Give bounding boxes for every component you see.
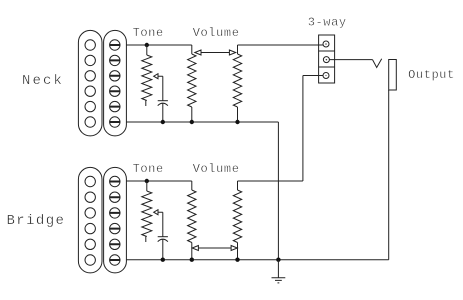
switch terminal 3 bbox=[323, 73, 329, 79]
potentiometer volume neck left element bbox=[191, 45, 193, 54]
node dot vol-NR ground bbox=[235, 120, 239, 124]
node dot vol-BR ground bbox=[235, 258, 239, 262]
wiper arrow tone bridge bbox=[154, 210, 163, 237]
potentiometer volume bridge left element bbox=[191, 181, 193, 190]
ground symbol bbox=[272, 260, 286, 283]
node dot cap-N ground bbox=[161, 120, 165, 124]
node dot vol-NL ground bbox=[190, 120, 194, 124]
svg-text:Tone: Tone bbox=[133, 162, 164, 176]
wire bridge hot: pickup to tone/volume top bbox=[126, 180, 191, 182]
wire bridge cold bus (bottom) to jack sleeve bbox=[126, 90, 388, 260]
potentiometer tone bridge (resistor body) bbox=[146, 181, 148, 191]
wire neck ground drop bbox=[277, 122, 279, 260]
node dot ground junction bbox=[276, 258, 280, 262]
svg-text:Tone: Tone bbox=[133, 26, 164, 40]
svg-text:Output: Output bbox=[408, 68, 455, 82]
svg-text:Neck: Neck bbox=[22, 73, 64, 89]
switch SW1 3-way body bbox=[319, 35, 335, 83]
node junction dot tone-N top bbox=[145, 43, 149, 47]
pickup NECK coil 2 (screw poles) bbox=[104, 30, 127, 135]
jack tip contact (V spring) bbox=[373, 59, 382, 68]
svg-text:3-way: 3-way bbox=[308, 15, 347, 29]
pickup NECK coil 1 (plain poles) bbox=[78, 30, 102, 135]
node dot cap-B ground bbox=[161, 258, 165, 262]
pickup BRIDGE coil 1 (plain poles) bbox=[78, 167, 102, 273]
wiper link volume neck (double arrow) bbox=[195, 50, 236, 55]
svg-text:Bridge: Bridge bbox=[7, 213, 66, 229]
wire neck hot: pickup to tone/volume top bbox=[126, 44, 191, 46]
wire neck cold bus (bottom) bbox=[126, 121, 278, 123]
jack J1 body bbox=[389, 60, 397, 91]
node junction dot tone-B top bbox=[145, 179, 149, 183]
wire volume-N to switch top terminal bbox=[238, 44, 324, 46]
pickup BRIDGE coil 2 (screw poles) bbox=[104, 167, 127, 273]
capacitor tone bridge bbox=[158, 236, 168, 238]
switch terminal 1 bbox=[323, 41, 329, 47]
capacitor tone neck bbox=[158, 100, 168, 102]
potentiometer volume neck right element bbox=[237, 45, 239, 54]
switch terminal 2 bbox=[323, 57, 329, 63]
wiper arrow tone neck bbox=[154, 74, 163, 101]
potentiometer volume bridge right element bbox=[237, 181, 239, 190]
wire bridge hot to switch bottom terminal bbox=[238, 76, 324, 182]
node dot vol-BL ground bbox=[190, 258, 194, 262]
svg-text:Volume: Volume bbox=[193, 162, 240, 176]
svg-text:Volume: Volume bbox=[193, 26, 240, 40]
wiper link volume bridge (double arrow) bbox=[192, 246, 237, 251]
potentiometer tone neck (resistor body) bbox=[146, 45, 148, 55]
wire switch common to jack tip bbox=[329, 59, 372, 61]
